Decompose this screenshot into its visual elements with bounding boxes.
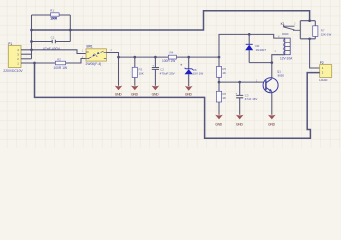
capacitor C1	[43, 35, 61, 50]
ground GND5	[215, 115, 223, 120]
svg-text:220V/DC10V: 220V/DC10V	[3, 69, 23, 73]
ground GND3	[152, 86, 160, 91]
wire relay net to P2 pin1	[310, 39, 320, 68]
svg-text:+: +	[152, 63, 154, 67]
svg-text:GND: GND	[268, 122, 276, 126]
wire Q1 emitter	[271, 92, 273, 115]
ground GND1	[115, 86, 123, 91]
connector P1	[3, 42, 23, 73]
relay coil K1	[274, 35, 293, 61]
svg-text:470uF 25V: 470uF 25V	[160, 71, 176, 75]
resistor R6	[216, 91, 226, 115]
svg-text:8050: 8050	[278, 74, 285, 78]
svg-text:GND: GND	[115, 92, 123, 96]
svg-text:GND: GND	[185, 93, 193, 97]
resistor R1	[50, 8, 59, 20]
svg-text:47nF 16V: 47nF 16V	[245, 97, 258, 101]
junction dots	[30, 19, 311, 83]
wire bottom return loop	[35, 63, 320, 138]
wire R2 to BR1	[66, 59, 86, 64]
capacitor C3	[235, 82, 257, 115]
svg-text:100R 1W: 100R 1W	[162, 59, 175, 63]
wire C1 branch	[32, 41, 71, 43]
svg-text:P1: P1	[8, 42, 12, 46]
svg-text:R2: R2	[57, 57, 61, 61]
resistor R7 with contact net	[300, 21, 331, 39]
svg-text:+: +	[235, 92, 237, 96]
svg-text:GND: GND	[152, 92, 160, 96]
wire P1 pin2 jumper	[21, 58, 32, 60]
wire AC live run to relay	[32, 11, 310, 30]
wire top snubber loop	[32, 15, 71, 59]
wire P1 pin4 to BR1	[21, 50, 86, 54]
svg-text:22K-1W: 22K-1W	[321, 32, 332, 36]
resistor R3	[132, 57, 144, 86]
wire base rail	[219, 81, 264, 83]
svg-text:C1: C1	[51, 35, 55, 39]
svg-text:1K: 1K	[222, 96, 226, 100]
wire DC rail	[119, 56, 220, 58]
svg-text:R4: R4	[170, 51, 174, 55]
svg-text:100R 1W: 100R 1W	[53, 66, 68, 70]
svg-text:R1: R1	[50, 8, 54, 12]
ground GND2	[131, 86, 139, 91]
wire P1 pin3 jumper	[21, 53, 32, 55]
svg-text:GND: GND	[215, 122, 223, 126]
connector P2	[319, 61, 332, 82]
resistor R4	[162, 51, 176, 63]
diode D0 flyback	[245, 34, 272, 62]
capacitor C2	[152, 57, 176, 86]
svg-text:12V-10A: 12V-10A	[280, 56, 293, 60]
svg-text:LOAD: LOAD	[319, 78, 328, 82]
bridge rectifier BR1	[82, 45, 113, 66]
wire coil bottom to collector	[272, 55, 285, 79]
ground GND6	[236, 115, 244, 120]
transistor Q1	[263, 69, 284, 92]
ground GND4	[185, 86, 193, 91]
resistor R2	[53, 57, 68, 70]
wire BR1 output	[107, 53, 119, 86]
svg-text:P2: P2	[320, 61, 324, 65]
svg-text:K1: K1	[281, 22, 285, 26]
wire P1 pin1 to R2	[21, 62, 55, 64]
ground GND7	[268, 115, 276, 120]
svg-text:15V 1W: 15V 1W	[193, 72, 204, 76]
svg-text:2W06(F-4): 2W06(F-4)	[86, 62, 102, 66]
svg-text:BR1: BR1	[87, 45, 93, 49]
relay contact K1	[281, 22, 301, 34]
svg-text:GND: GND	[236, 122, 244, 126]
svg-text:100R: 100R	[50, 17, 58, 21]
svg-text:1N4007: 1N4007	[256, 48, 267, 52]
wire rail riser to relay feed	[219, 34, 285, 57]
resistor R5	[216, 57, 226, 91]
zener diode D6	[180, 57, 203, 86]
svg-text:1K: 1K	[222, 71, 226, 75]
svg-text:GND: GND	[131, 92, 139, 96]
svg-text:10K: 10K	[139, 71, 144, 75]
